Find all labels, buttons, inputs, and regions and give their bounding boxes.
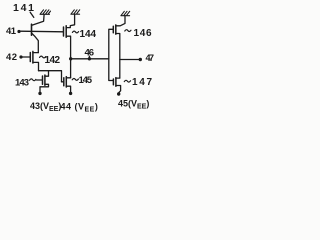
transistor M145 drain lead	[66, 77, 70, 79]
svg-text:41: 41	[6, 26, 17, 37]
tilde leader for 143	[30, 79, 36, 81]
svg-text:143: 143	[15, 78, 29, 89]
transistor M146 drain lead	[116, 16, 125, 26]
node 41 terminal dot	[17, 30, 20, 33]
transistor M145 gate bar	[63, 78, 65, 86]
node 47 tap wire	[120, 59, 139, 61]
wire rail from 142 source to gate of 145	[39, 71, 64, 82]
node 46 rail	[71, 58, 109, 60]
svg-text:144: 144	[80, 29, 97, 40]
transistor M142 channel bar	[32, 51, 34, 63]
transistor M147 source lead to VEE terminal 45	[116, 86, 121, 93]
terminal 43 dot	[38, 92, 41, 95]
wire node42 to gate of 142	[23, 56, 31, 58]
transistor Q141 emitter	[32, 33, 38, 52]
transistor M144 source lead down to node 46	[66, 36, 70, 78]
transistor M143 gate stub	[37, 79, 43, 81]
node 46 label leader tick	[88, 56, 90, 58]
svg-text:141: 141	[13, 2, 34, 14]
svg-text:47: 47	[146, 53, 155, 63]
tilde leader for 145	[72, 78, 78, 80]
svg-text:45(VEE): 45(VEE)	[118, 99, 149, 111]
power rail hatch (middle, above 144)	[71, 10, 80, 14]
wire node41 to base of 141 and on to gate of 144	[20, 30, 63, 33]
transistor M143 channel bar	[44, 75, 46, 85]
svg-text:145: 145	[79, 75, 93, 86]
transistor M145 source lead to VEE terminal 44	[66, 86, 70, 92]
svg-text:44 (VEE): 44 (VEE)	[61, 102, 99, 114]
tilde leader for 144	[72, 31, 78, 33]
svg-text:146: 146	[134, 28, 152, 39]
wire node46 to gates of 146 and 147	[109, 29, 113, 80]
transistor M144 gate bar	[63, 27, 65, 36]
power rail hatch (left, above 141)	[40, 10, 51, 15]
transistor M142 gate bar	[29, 53, 31, 62]
power rail hatch (right, above 146)	[121, 11, 130, 15]
transistor M144 drain lead	[66, 15, 74, 28]
tilde leader for 146	[125, 30, 131, 32]
transistor M143 drain lead	[45, 71, 49, 77]
terminal 45 dot	[117, 92, 120, 95]
node 46 label leader dot	[88, 57, 91, 60]
transistor Q141 base bar	[31, 24, 33, 35]
svg-text:46: 46	[85, 48, 95, 59]
transistor M142 source lead	[33, 62, 39, 70]
transistor M147 channel bar	[115, 78, 117, 87]
transistor M145 channel bar	[65, 77, 67, 87]
svg-text:42: 42	[6, 52, 17, 63]
transistor M147 gate bar	[112, 79, 114, 85]
tilde leader for 147	[124, 80, 130, 82]
junction dot 144/145/node46	[69, 57, 72, 60]
transistor M146 gate bar	[112, 26, 114, 33]
transistor M146 source lead down to node 47	[116, 34, 120, 79]
transistor M145 gate wire	[62, 81, 64, 83]
svg-text:147: 147	[132, 77, 152, 88]
node 42 terminal dot	[19, 55, 22, 58]
label 141 leader line	[30, 12, 34, 17]
node 47 terminal dot	[139, 58, 142, 61]
svg-text:43(VEE): 43(VEE)	[30, 101, 61, 113]
tilde leader for 142	[40, 56, 46, 58]
transistor M144 channel bar	[65, 26, 67, 38]
svg-text:142: 142	[45, 55, 61, 66]
transistor M143 gate bar	[42, 76, 44, 84]
terminal 44 dot	[69, 92, 72, 95]
transistor M143 source lead to VEE terminal 43	[40, 84, 49, 92]
transistor M146 channel bar	[115, 25, 117, 34]
transistor M142 drain lead	[33, 52, 38, 54]
transistor M147 drain lead	[116, 77, 120, 79]
transistor Q141 collector	[32, 15, 44, 26]
